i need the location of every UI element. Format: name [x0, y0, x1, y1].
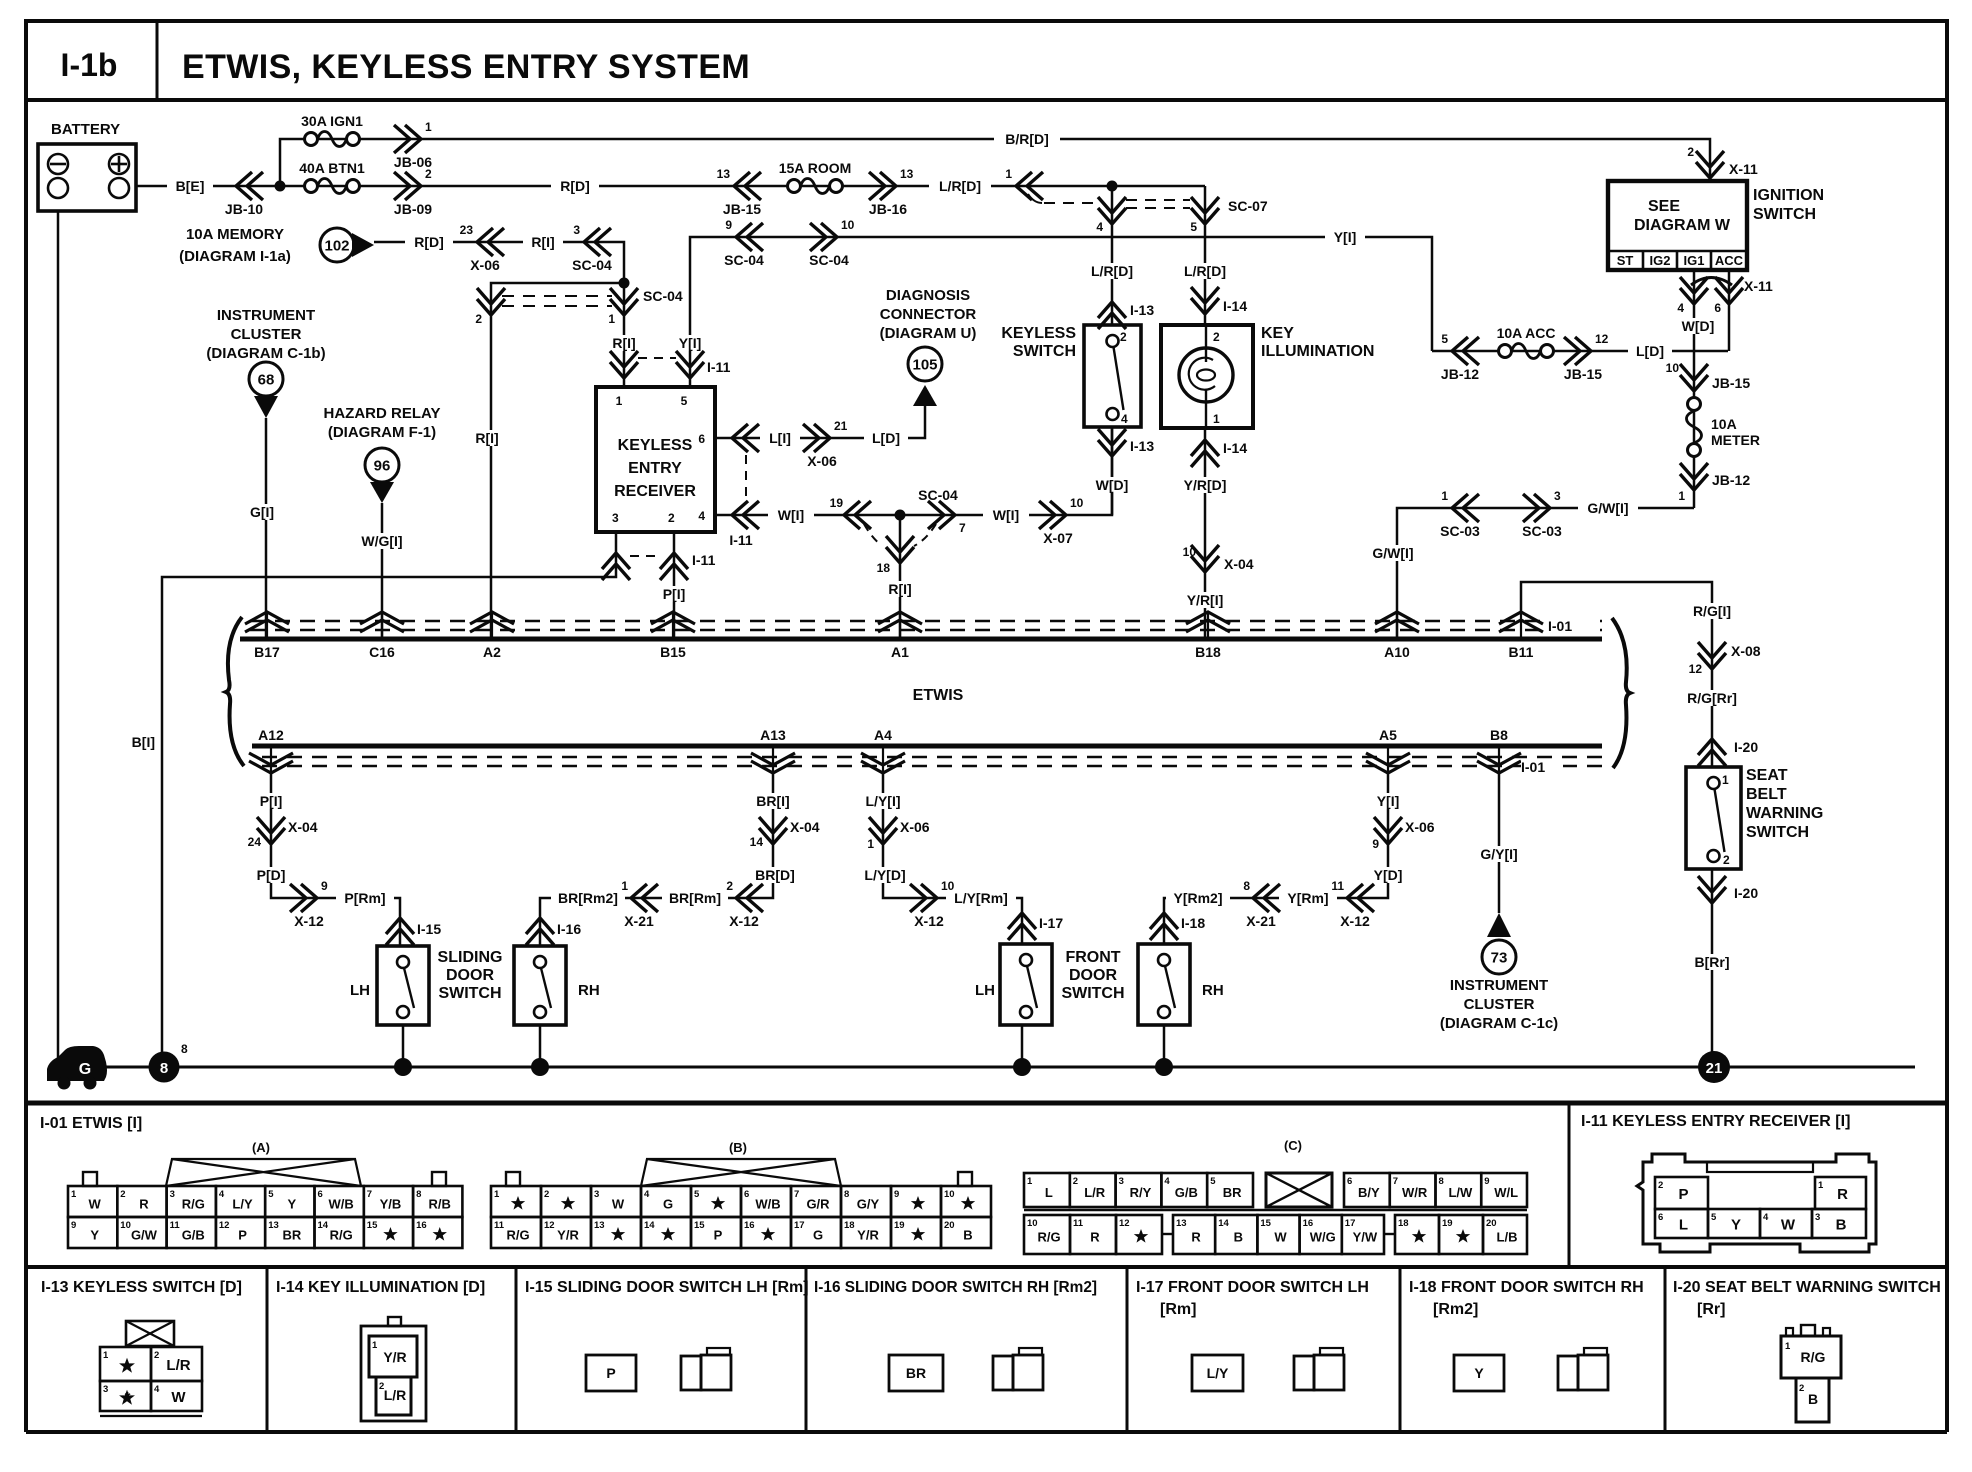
svg-text:Y: Y	[90, 1228, 99, 1243]
svg-text:I-20: I-20	[1734, 885, 1758, 901]
svg-text:KEYLESS: KEYLESS	[618, 437, 693, 454]
svg-text:I-01 ETWIS [I]: I-01 ETWIS [I]	[40, 1115, 142, 1132]
svg-text:105: 105	[912, 357, 937, 374]
wire keyless switch W[D]	[1088, 427, 1136, 515]
svg-text:R/Y: R/Y	[1130, 1185, 1152, 1200]
connector X-12 pin 2	[726, 879, 763, 929]
svg-text:B17: B17	[254, 644, 280, 660]
connector I-13 top	[1098, 302, 1154, 329]
svg-text:102: 102	[324, 238, 349, 255]
svg-text:W: W	[1274, 1230, 1287, 1245]
svg-text:R/G: R/G	[1801, 1349, 1826, 1365]
connector JB-15 pin 13	[717, 167, 762, 217]
svg-text:I-01: I-01	[1521, 759, 1545, 775]
svg-text:3: 3	[170, 1189, 175, 1200]
svg-text:2: 2	[475, 312, 482, 326]
node I-17 FRONT DOOR SWITCH LH connector	[1136, 1279, 1369, 1391]
svg-text:W/G[I]: W/G[I]	[361, 533, 402, 549]
svg-text:8: 8	[844, 1189, 849, 1200]
svg-text:I-17: I-17	[1039, 915, 1063, 931]
svg-text:L/Y: L/Y	[232, 1197, 253, 1212]
svg-text:ETWIS: ETWIS	[913, 687, 964, 704]
svg-text:L[D]: L[D]	[872, 430, 900, 446]
label R[D] memory	[405, 234, 453, 250]
label G/W[I] vertical	[1363, 545, 1423, 561]
svg-text:L/R: L/R	[1084, 1185, 1106, 1200]
ETWIS bus bottom line	[252, 744, 1602, 749]
svg-text:5: 5	[1190, 220, 1197, 234]
svg-text:Y/R: Y/R	[383, 1349, 406, 1365]
svg-text:3: 3	[612, 511, 619, 525]
svg-text:6: 6	[1347, 1176, 1352, 1187]
svg-text:3: 3	[594, 1189, 599, 1200]
svg-text:10A ACC: 10A ACC	[1497, 325, 1556, 341]
fuse 10A METER	[1687, 381, 1761, 508]
svg-text:1: 1	[867, 837, 874, 851]
svg-text:13: 13	[1176, 1218, 1187, 1229]
svg-text:SWITCH: SWITCH	[438, 985, 501, 1002]
label R/G[Rr]	[1679, 690, 1745, 706]
svg-text:R/G: R/G	[182, 1197, 205, 1212]
ETWIS bus top dashed pair	[250, 621, 1602, 630]
title ETWIS, KEYLESS ENTRY SYSTEM	[182, 48, 750, 86]
svg-text:X-12: X-12	[729, 913, 759, 929]
svg-text:SC-07: SC-07	[1228, 198, 1268, 214]
svg-text:6: 6	[318, 1189, 323, 1200]
svg-text:A13: A13	[760, 727, 786, 743]
svg-text:W: W	[171, 1389, 186, 1406]
svg-text:Y: Y	[288, 1197, 297, 1212]
svg-text:I-20 SEAT BELT WARNING SWITCH: I-20 SEAT BELT WARNING SWITCH	[1673, 1279, 1941, 1296]
svg-text:I-13: I-13	[1130, 438, 1154, 454]
svg-text:X-07: X-07	[1043, 530, 1073, 546]
svg-text:SC-04: SC-04	[724, 252, 764, 268]
ETWIS bus left brace	[226, 617, 244, 766]
svg-text:R/G[I]: R/G[I]	[1693, 603, 1731, 619]
svg-text:X-08: X-08	[1731, 643, 1761, 659]
svg-text:R[D]: R[D]	[560, 178, 590, 194]
ground G	[47, 1046, 107, 1090]
svg-text:19: 19	[894, 1220, 905, 1231]
svg-text:2: 2	[1799, 1383, 1804, 1394]
svg-text:I-01: I-01	[1548, 618, 1572, 634]
connector SC-04 pin 18	[877, 536, 914, 575]
svg-text:4: 4	[644, 1189, 650, 1200]
svg-text:CLUSTER: CLUSTER	[1464, 996, 1535, 1013]
svg-text:20: 20	[944, 1220, 955, 1231]
label L/Y[I]	[857, 793, 909, 809]
svg-text:(DIAGRAM C-1b): (DIAGRAM C-1b)	[206, 345, 325, 362]
svg-text:7: 7	[959, 521, 966, 535]
label R/G[I]	[1684, 603, 1740, 619]
svg-text:A10: A10	[1384, 644, 1410, 660]
svg-text:9: 9	[1372, 837, 1379, 851]
svg-text:1: 1	[1722, 773, 1729, 787]
label B[Rr]	[1687, 954, 1737, 970]
label Y[I] on long line	[1325, 229, 1365, 245]
svg-text:4: 4	[1096, 220, 1103, 234]
svg-text:10A: 10A	[1711, 416, 1737, 432]
label P[I]	[252, 793, 290, 809]
connector SC-04 pin 1	[608, 288, 683, 326]
svg-text:I-16 SLIDING DOOR SWITCH RH [R: I-16 SLIDING DOOR SWITCH RH [Rm2]	[814, 1279, 1097, 1296]
node terminal A2	[470, 612, 514, 660]
svg-text:I-1b: I-1b	[61, 47, 118, 83]
svg-text:8: 8	[160, 1060, 168, 1077]
wire R[I] to receiver pin 1	[606, 283, 642, 387]
wire L/Y chain A4 to front door LH	[883, 773, 1022, 944]
label R[I] vertical A2	[468, 430, 506, 446]
svg-text:W/L: W/L	[1494, 1185, 1518, 1200]
connector SC-07 pin 5	[1190, 197, 1268, 234]
off-page ref 96 HAZARD RELAY	[324, 405, 441, 503]
svg-text:Y/R: Y/R	[557, 1228, 579, 1243]
svg-text:BATTERY: BATTERY	[51, 121, 120, 138]
connector I-11 at pin 6	[732, 424, 759, 452]
svg-text:15A ROOM: 15A ROOM	[779, 160, 852, 176]
svg-text:JB-15: JB-15	[1712, 375, 1750, 391]
wire Y chain A5 to front door RH	[1164, 773, 1388, 944]
svg-text:8: 8	[1439, 1176, 1444, 1187]
svg-text:Y[Rm]: Y[Rm]	[1287, 890, 1328, 906]
wire pin 4 W[I]	[715, 427, 1112, 515]
svg-text:I-15: I-15	[417, 921, 441, 937]
label BR[D]	[749, 867, 801, 883]
svg-text:G/Y[I]: G/Y[I]	[1480, 846, 1517, 862]
svg-text:21: 21	[834, 419, 848, 433]
svg-text:1: 1	[616, 394, 623, 408]
svg-text:Y[Rm2]: Y[Rm2]	[1173, 890, 1222, 906]
svg-text:P[Rm]: P[Rm]	[344, 890, 385, 906]
svg-text:(A): (A)	[252, 1140, 270, 1155]
wire P chain A12 to sliding door LH	[271, 773, 400, 946]
svg-text:16: 16	[1303, 1218, 1314, 1229]
svg-text:5: 5	[268, 1189, 274, 1200]
connector X-11 pin 2	[1687, 145, 1758, 178]
node I-01 group C	[1024, 1138, 1527, 1254]
svg-text:G/W[I]: G/W[I]	[1587, 500, 1628, 516]
connector SC-04 pin 2	[475, 288, 505, 326]
svg-text:(DIAGRAM I-1a): (DIAGRAM I-1a)	[179, 248, 291, 265]
svg-text:I-11: I-11	[729, 532, 753, 548]
svg-text:R[I]: R[I]	[531, 234, 554, 250]
svg-text:B[Rr]: B[Rr]	[1695, 954, 1730, 970]
svg-text:G/Y: G/Y	[857, 1197, 880, 1212]
svg-text:10: 10	[1070, 496, 1084, 510]
svg-text:11: 11	[494, 1220, 505, 1231]
svg-text:12: 12	[1119, 1218, 1130, 1229]
svg-text:1: 1	[1785, 1341, 1791, 1352]
svg-text:(DIAGRAM F-1): (DIAGRAM F-1)	[328, 424, 436, 441]
svg-text:1: 1	[425, 120, 432, 134]
svg-text:L/B: L/B	[1497, 1230, 1518, 1245]
svg-text:2: 2	[1687, 145, 1694, 159]
node I-16 SLIDING DOOR SWITCH RH connector	[814, 1279, 1097, 1391]
svg-text:18: 18	[1398, 1218, 1409, 1229]
svg-text:JB-16: JB-16	[869, 201, 907, 217]
svg-text:INSTRUMENT: INSTRUMENT	[1450, 977, 1548, 994]
wire key illumination Y/R to B18	[1204, 428, 1207, 639]
svg-text:L/Y[Rm]: L/Y[Rm]	[954, 890, 1008, 906]
svg-text:X-04: X-04	[1224, 556, 1254, 572]
svg-text:4: 4	[1763, 1212, 1769, 1223]
svg-text:Y[I]: Y[I]	[1334, 229, 1357, 245]
wire SC-04 jumper bus	[491, 283, 624, 639]
label L[D] acc	[1628, 343, 1672, 359]
svg-text:W[D]: W[D]	[1096, 477, 1129, 493]
wire BR chain A13 to sliding door RH	[540, 773, 773, 946]
svg-text:2: 2	[1213, 330, 1220, 344]
svg-text:2: 2	[544, 1189, 549, 1200]
fuse 30A IGN1	[301, 113, 363, 147]
connector JB-12 pin 5	[1441, 332, 1479, 382]
svg-text:14: 14	[644, 1220, 655, 1231]
node terminal A12	[249, 727, 293, 773]
node terminal A1	[878, 612, 922, 660]
node junction L/R[D]	[1107, 181, 1118, 192]
svg-text:I-16: I-16	[557, 921, 581, 937]
svg-text:DOOR: DOOR	[1069, 967, 1117, 984]
svg-text:[Rr]: [Rr]	[1697, 1301, 1725, 1318]
wire G/Y[I] from B8	[1471, 773, 1527, 913]
svg-text:SC-04: SC-04	[918, 487, 958, 503]
svg-text:8: 8	[416, 1189, 421, 1200]
wire sliding RH to ground	[531, 1025, 549, 1076]
svg-text:13: 13	[717, 167, 731, 181]
svg-text:2: 2	[120, 1189, 125, 1200]
svg-text:P[I]: P[I]	[260, 793, 283, 809]
svg-text:W: W	[1781, 1217, 1796, 1234]
svg-text:L/Y[D]: L/Y[D]	[864, 867, 905, 883]
svg-text:CONNECTOR: CONNECTOR	[880, 306, 977, 323]
connector X-21 pin 1	[621, 879, 658, 929]
svg-text:LH: LH	[350, 982, 370, 999]
wire L/R[D] to keyless switch	[1083, 186, 1141, 325]
svg-text:I-11: I-11	[692, 552, 716, 568]
svg-text:1: 1	[103, 1350, 109, 1361]
svg-text:KEYLESS: KEYLESS	[1001, 325, 1076, 342]
label ETWIS	[913, 687, 964, 704]
connector X-06 pin 1	[867, 817, 929, 851]
svg-text:14: 14	[1218, 1218, 1229, 1229]
svg-text:24: 24	[248, 835, 262, 849]
wire ground bus	[58, 1066, 1915, 1069]
svg-text:W[D]: W[D]	[1682, 318, 1715, 334]
node junction W[I]	[895, 510, 906, 521]
svg-text:HAZARD RELAY: HAZARD RELAY	[324, 405, 441, 422]
connector SC-03 pin 1	[1440, 489, 1480, 539]
svg-text:B[E]: B[E]	[176, 178, 205, 194]
svg-text:G/W: G/W	[131, 1228, 158, 1243]
node I-11 KEYLESS ENTRY RECEIVER connector	[1581, 1113, 1876, 1252]
connector SC-07 pin 4	[1096, 197, 1126, 234]
svg-text:W/B: W/B	[755, 1197, 780, 1212]
connector JB-16 pin 13	[869, 167, 914, 217]
svg-text:B: B	[963, 1228, 972, 1243]
svg-text:BELT: BELT	[1746, 786, 1787, 803]
svg-text:L/Y[I]: L/Y[I]	[866, 793, 901, 809]
svg-text:9: 9	[321, 879, 328, 893]
node terminal A4	[861, 727, 905, 773]
svg-text:JB-12: JB-12	[1441, 366, 1479, 382]
svg-text:[Rm2]: [Rm2]	[1433, 1301, 1478, 1318]
svg-text:SC-03: SC-03	[1522, 523, 1562, 539]
connector I-15	[386, 918, 441, 945]
svg-text:6: 6	[744, 1189, 749, 1200]
off-page ref 102 10A MEMORY	[179, 226, 374, 265]
svg-text:7: 7	[367, 1189, 372, 1200]
connector X-06 pin 23	[460, 223, 504, 273]
label Y/R[I]	[1178, 592, 1232, 608]
label Y[D]	[1366, 867, 1410, 883]
ground 21	[1698, 1051, 1730, 1083]
label BR[I]	[750, 793, 796, 809]
svg-text:ACC: ACC	[1715, 253, 1744, 268]
node terminal A5	[1366, 727, 1410, 773]
svg-text:SC-04: SC-04	[572, 257, 612, 273]
label Y[Rm2]	[1166, 890, 1230, 906]
svg-text:I-18 FRONT DOOR SWITCH RH: I-18 FRONT DOOR SWITCH RH	[1409, 1279, 1644, 1296]
svg-text:Y: Y	[1474, 1365, 1484, 1381]
svg-text:KEY: KEY	[1261, 325, 1294, 342]
svg-text:ST: ST	[1617, 253, 1634, 268]
svg-text:19: 19	[1442, 1218, 1453, 1229]
wire ACC down	[1728, 270, 1731, 351]
svg-text:8: 8	[181, 1042, 188, 1056]
svg-text:G: G	[79, 1061, 91, 1078]
connector I-11 at pin 4	[729, 501, 759, 548]
svg-text:10: 10	[944, 1189, 955, 1200]
svg-text:9: 9	[725, 218, 732, 232]
svg-text:I-11 KEYLESS ENTRY RECEIVER [I: I-11 KEYLESS ENTRY RECEIVER [I]	[1581, 1113, 1850, 1130]
svg-text:12: 12	[1689, 662, 1703, 676]
svg-text:G/B: G/B	[182, 1228, 205, 1243]
svg-text:2: 2	[154, 1350, 159, 1361]
svg-text:14: 14	[318, 1220, 329, 1231]
label P[D]	[249, 867, 293, 883]
svg-text:BR[D]: BR[D]	[755, 867, 795, 883]
connector X-07 pin 10	[1039, 496, 1084, 546]
svg-text:10: 10	[1027, 1218, 1038, 1229]
connector X-06 pin 21	[803, 419, 848, 469]
svg-text:(DIAGRAM U): (DIAGRAM U)	[880, 325, 977, 342]
svg-text:2: 2	[668, 511, 675, 525]
label R[I] memory	[523, 234, 563, 250]
svg-text:DIAGRAM W: DIAGRAM W	[1634, 217, 1731, 234]
svg-text:15: 15	[367, 1220, 378, 1231]
svg-text:SWITCH: SWITCH	[1061, 985, 1124, 1002]
node I-20 SEAT BELT WARNING SWITCH connector	[1673, 1279, 1941, 1422]
label BR[Rm2]	[551, 890, 625, 906]
svg-text:P[D]: P[D]	[257, 867, 286, 883]
svg-text:B/Y: B/Y	[1358, 1185, 1380, 1200]
svg-text:A5: A5	[1379, 727, 1397, 743]
svg-text:4: 4	[698, 509, 705, 523]
connector SC-04 pin 7	[918, 487, 966, 535]
fuse 15A ROOM	[779, 160, 852, 194]
switch FRONT DOOR SWITCH RH	[1138, 944, 1224, 1025]
svg-text:5: 5	[681, 394, 688, 408]
svg-text:3: 3	[1815, 1212, 1820, 1223]
svg-text:P: P	[1678, 1186, 1688, 1203]
svg-text:G/R: G/R	[806, 1197, 830, 1212]
svg-text:1: 1	[71, 1189, 77, 1200]
label L/Y[D]	[856, 867, 914, 883]
node terminal A10	[1375, 612, 1419, 660]
wire battery to ground (left vertical)	[57, 211, 60, 1067]
svg-text:I-14: I-14	[1223, 440, 1247, 456]
svg-text:X-11: X-11	[1729, 161, 1758, 177]
svg-text:RH: RH	[578, 982, 600, 999]
wire W/G[I] to C16	[354, 503, 410, 639]
wire pin 6 L[I]/L[D]	[715, 406, 925, 438]
svg-text:13: 13	[900, 167, 914, 181]
svg-text:15: 15	[1260, 1218, 1271, 1229]
wire sliding LH to ground	[394, 1025, 412, 1076]
svg-text:SC-03: SC-03	[1440, 523, 1480, 539]
svg-text:L/R[D]: L/R[D]	[1091, 263, 1133, 279]
svg-text:L/R[D]: L/R[D]	[939, 178, 981, 194]
connector I-20 bottom	[1698, 876, 1758, 903]
svg-text:96: 96	[374, 458, 391, 475]
svg-text:X-11: X-11	[1744, 278, 1773, 294]
wire SC-07 dashed link	[1028, 194, 1190, 208]
svg-text:IG2: IG2	[1650, 253, 1671, 268]
svg-text:W: W	[612, 1197, 625, 1212]
svg-text:RECEIVER: RECEIVER	[614, 483, 696, 500]
svg-text:10: 10	[841, 218, 855, 232]
svg-text:6: 6	[1714, 301, 1721, 315]
svg-text:SWITCH: SWITCH	[1753, 206, 1816, 223]
svg-text:G: G	[663, 1197, 673, 1212]
label G/W[I] horizontal	[1578, 500, 1638, 516]
svg-text:W/G: W/G	[1310, 1230, 1336, 1245]
wire L/R[D] to key illumination	[1176, 186, 1234, 325]
svg-text:ILLUMINATION: ILLUMINATION	[1261, 343, 1374, 360]
svg-text:R/G: R/G	[1037, 1230, 1060, 1245]
svg-text:BR: BR	[1223, 1185, 1242, 1200]
svg-text:[Rm]: [Rm]	[1160, 1301, 1196, 1318]
svg-text:12: 12	[1595, 332, 1609, 346]
title cell I-1b	[61, 47, 118, 83]
svg-text:P: P	[238, 1228, 247, 1243]
connector I-11 at pin 3	[602, 553, 630, 580]
wire SC-04 dashed pair	[502, 296, 612, 306]
svg-text:W[I]: W[I]	[778, 507, 804, 523]
wire front LH to ground	[1013, 1025, 1031, 1076]
svg-text:BR[Rm2]: BR[Rm2]	[558, 890, 618, 906]
svg-text:I-18: I-18	[1181, 915, 1205, 931]
wire R/G from B11 to seat belt switch	[1521, 582, 1712, 767]
svg-text:CLUSTER: CLUSTER	[231, 326, 302, 343]
svg-text:2: 2	[1120, 330, 1127, 344]
dashed link I-11 bottom	[630, 555, 660, 557]
svg-text:INSTRUMENT: INSTRUMENT	[217, 307, 315, 324]
node I-01 ETWIS connector table	[40, 1115, 142, 1132]
svg-text:4: 4	[1164, 1176, 1170, 1187]
wire B[E]/R[D] main feed	[136, 185, 1205, 188]
svg-text:B/R[D]: B/R[D]	[1005, 131, 1049, 147]
svg-text:P[I]: P[I]	[663, 586, 686, 602]
svg-text:L: L	[1045, 1185, 1053, 1200]
svg-text:17: 17	[794, 1220, 805, 1231]
svg-text:SEE: SEE	[1648, 198, 1680, 215]
connector JB-15 pin 10 (vertical)	[1666, 361, 1751, 391]
connector SC-04 pin 9 on Y[I]	[724, 218, 764, 268]
svg-text:L[D]: L[D]	[1636, 343, 1664, 359]
svg-text:30A IGN1: 30A IGN1	[301, 113, 363, 129]
svg-text:B: B	[1836, 1217, 1847, 1234]
